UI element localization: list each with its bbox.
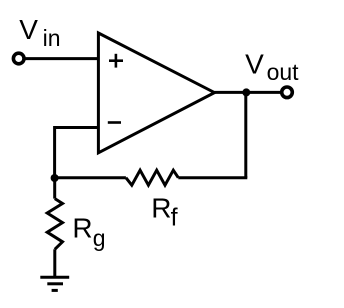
- svg-text:R: R: [151, 193, 171, 224]
- svg-text:V: V: [245, 48, 264, 79]
- wire: Rg to ground: [53, 249, 56, 277]
- svg-text:V: V: [19, 14, 38, 45]
- wire: input terminal to op-amp + input: [25, 57, 99, 60]
- wire: op-amp - input to left rail: [55, 128, 99, 178]
- svg-text:out: out: [267, 59, 300, 85]
- op-amp - label: [108, 121, 121, 124]
- ground: [40, 277, 69, 290]
- wire: op-amp output: [215, 91, 283, 94]
- op-amp U1: [98, 33, 214, 153]
- resistor Rg zigzag: [47, 199, 62, 250]
- node A junction dot: [51, 174, 59, 182]
- resistor Rf zigzag: [126, 170, 178, 185]
- svg-text:R: R: [72, 212, 92, 243]
- svg-text:in: in: [43, 25, 61, 51]
- svg-text:g: g: [93, 225, 106, 251]
- node B junction dot (output): [242, 88, 250, 96]
- wire: node A down to Rg: [53, 176, 56, 198]
- output terminal (V_out): [282, 87, 293, 98]
- op-amp + label: [109, 54, 123, 68]
- wire: feedback horizontal right segment: [178, 176, 247, 179]
- wire: feedback vertical from output node: [244, 92, 247, 177]
- input terminal (V_in): [13, 53, 24, 64]
- svg-text:f: f: [171, 203, 178, 231]
- wire: Rf left to node A: [53, 176, 126, 179]
